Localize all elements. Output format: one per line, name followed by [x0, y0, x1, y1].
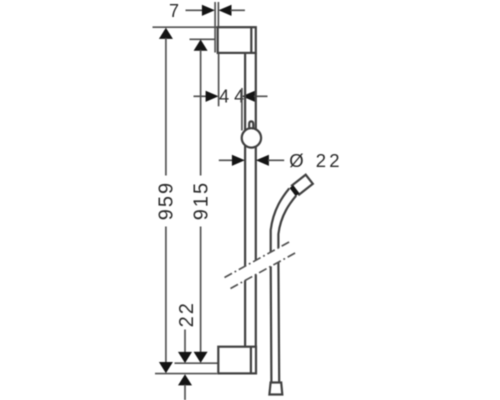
top wall bracket: [218, 27, 256, 53]
dimension Ø22 left tail: [219, 159, 233, 161]
dimension 915 top arrow: [194, 40, 208, 51]
dimension 915 bottom arrow: [194, 352, 208, 363]
dimension Ø22 left arrow (pointing right): [232, 155, 245, 166]
dimension 7 right tail: [231, 9, 245, 11]
svg-text:4 4: 4 4: [219, 87, 244, 107]
dimension 915 line lower segment: [200, 227, 202, 353]
shower holder nut: [291, 187, 297, 195]
dimension 22 tail below: [184, 385, 186, 400]
bracket-left extension line above: [217, 2, 219, 27]
hose end fitting: [269, 383, 282, 395]
dimension 22 line above: [184, 330, 186, 353]
lower extension line (bracket bottom, 915/22): [175, 362, 219, 364]
dimension 7 right arrow (pointing right): [202, 5, 215, 16]
dimension Ø22 right tail: [268, 159, 284, 161]
slider circle: [242, 128, 261, 147]
slider pin: [249, 121, 253, 129]
wall plane line: [214, 2, 216, 53]
svg-text:7: 7: [169, 1, 179, 21]
top bracket inner line: [250, 27, 252, 53]
dimension Ø22 right arrow (pointing left): [256, 155, 269, 166]
dimension 22 down arrow: [178, 352, 192, 363]
dimension 959 bottom arrow: [159, 362, 173, 373]
svg-text:22: 22: [316, 150, 343, 171]
dimension 44 right arrow (pointing left): [242, 91, 255, 102]
dimension 44 right extension line: [241, 88, 243, 131]
rail left edge: [244, 53, 246, 347]
dimension 44 right tail: [254, 95, 268, 97]
bottom bracket inner line: [250, 347, 252, 374]
svg-text:Ø: Ø: [289, 150, 303, 171]
svg-text:959: 959: [156, 181, 178, 220]
dimension 959 top arrow: [159, 28, 173, 39]
break mark upper dash-dot: [225, 242, 291, 278]
dimension 7 left tail: [186, 9, 204, 11]
hose outer curve: [271, 188, 290, 382]
dimension 959 line upper segment: [165, 38, 167, 176]
hose inner curve: [278, 196, 296, 383]
top extension line (bar top, 959): [153, 26, 218, 28]
dimension 44 left arrow (pointing right): [206, 91, 219, 102]
shower holder body: [292, 175, 313, 195]
upper extension line (bracket axis, 915): [190, 38, 216, 40]
dimension 959 line lower segment: [165, 227, 167, 363]
svg-text:915: 915: [190, 181, 212, 220]
bottom wall bracket: [218, 347, 256, 374]
dimension 915 line upper segment: [200, 50, 202, 176]
svg-text:22: 22: [176, 301, 198, 327]
rail right edge: [255, 53, 257, 347]
bottom extension line (bar end, 959/22): [155, 373, 217, 375]
bracket-left extension line below: [218, 53, 220, 106]
dimension 44 left tail: [194, 95, 208, 97]
dimension 22 up arrow: [178, 374, 192, 385]
break mark lower dash-dot: [231, 253, 297, 289]
dimension 7 left arrow (pointing left): [219, 5, 232, 16]
